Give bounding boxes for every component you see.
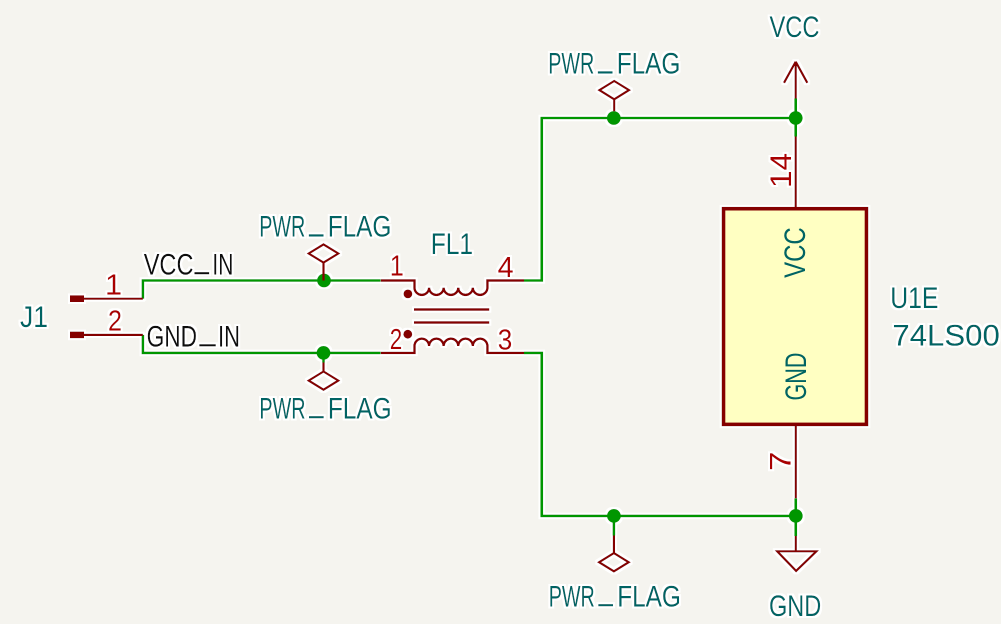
svg-text:VCC: VCC: [770, 11, 820, 44]
filter FL1 polarity dot pin1: [404, 290, 413, 299]
IC U1E pin 14 line: [795, 137, 797, 208]
filter FL1 core line lower: [414, 321, 489, 323]
svg-text:PWR: PWR: [549, 580, 595, 613]
svg-text:U1E: U1E: [890, 282, 938, 315]
svg-text:GND: GND: [147, 320, 198, 353]
junction GND: [789, 509, 803, 523]
svg-text:FLAG: FLAG: [328, 392, 392, 425]
IC U1E body: [724, 209, 867, 425]
svg-text:PWR: PWR: [259, 211, 305, 244]
svg-text:1: 1: [390, 251, 404, 283]
junction top-left: [317, 274, 331, 288]
IC U1E pin 7 line: [795, 426, 797, 498]
pwr_flag top-left diamond: [309, 244, 339, 280]
wire stub pwr_flag bottom-left: [322, 353, 325, 363]
svg-text:IN: IN: [212, 248, 233, 281]
pwr_flag bottom-center diamond: [599, 536, 629, 572]
svg-text:4: 4: [498, 252, 514, 284]
svg-text:74LS00: 74LS00: [892, 320, 999, 353]
svg-text:J1: J1: [20, 301, 48, 334]
svg-text:PWR: PWR: [548, 48, 594, 81]
junction VCC: [789, 111, 803, 125]
wire VCC_IN horizontal top-left: [143, 281, 381, 299]
svg-text:PWR: PWR: [259, 392, 305, 425]
filter FL1 bottom winding (pins 2-3): [381, 339, 524, 353]
power symbol GND triangle: [777, 536, 816, 571]
wire VCC vertical stub: [794, 99, 797, 137]
svg-text:FLAG: FLAG: [617, 48, 681, 81]
pwr_flag bottom-left diamond: [309, 363, 339, 390]
svg-text:2: 2: [108, 306, 122, 338]
svg-text:FL1: FL1: [431, 228, 473, 261]
junction bottom-center: [607, 509, 621, 523]
connector J1 pin 1: [70, 295, 84, 302]
svg-text:IN: IN: [218, 320, 240, 353]
filter FL1 top winding (pins 1-4): [381, 281, 524, 295]
svg-text:GND: GND: [780, 353, 813, 401]
filter FL1 polarity dot pin2: [403, 330, 412, 339]
junction top-center: [607, 111, 621, 125]
power symbol VCC arrow: [784, 62, 807, 99]
svg-text:GND: GND: [769, 590, 821, 623]
wire stub pwr_flag bottom-center: [613, 516, 616, 536]
svg-text:14: 14: [765, 153, 798, 188]
svg-text:FLAG: FLAG: [328, 211, 392, 244]
svg-text:VCC: VCC: [779, 227, 812, 278]
wire GND vertical stub: [794, 498, 797, 536]
svg-text:FLAG: FLAG: [617, 580, 681, 613]
wire GND_IN horizontal bottom-left: [143, 335, 381, 353]
wire FL1 pin3 to GND net: [524, 353, 796, 516]
connector J1 pin 2: [70, 332, 84, 339]
svg-text:3: 3: [498, 325, 513, 357]
pwr_flag top-center diamond: [599, 81, 629, 111]
svg-text:2: 2: [390, 324, 403, 356]
wire FL1 pin4 to VCC net: [524, 118, 796, 281]
filter FL1 core line upper: [414, 308, 489, 310]
junction bottom-left: [317, 346, 331, 360]
svg-text:VCC: VCC: [144, 248, 194, 281]
svg-text:1: 1: [105, 270, 122, 302]
svg-text:7: 7: [765, 452, 798, 472]
